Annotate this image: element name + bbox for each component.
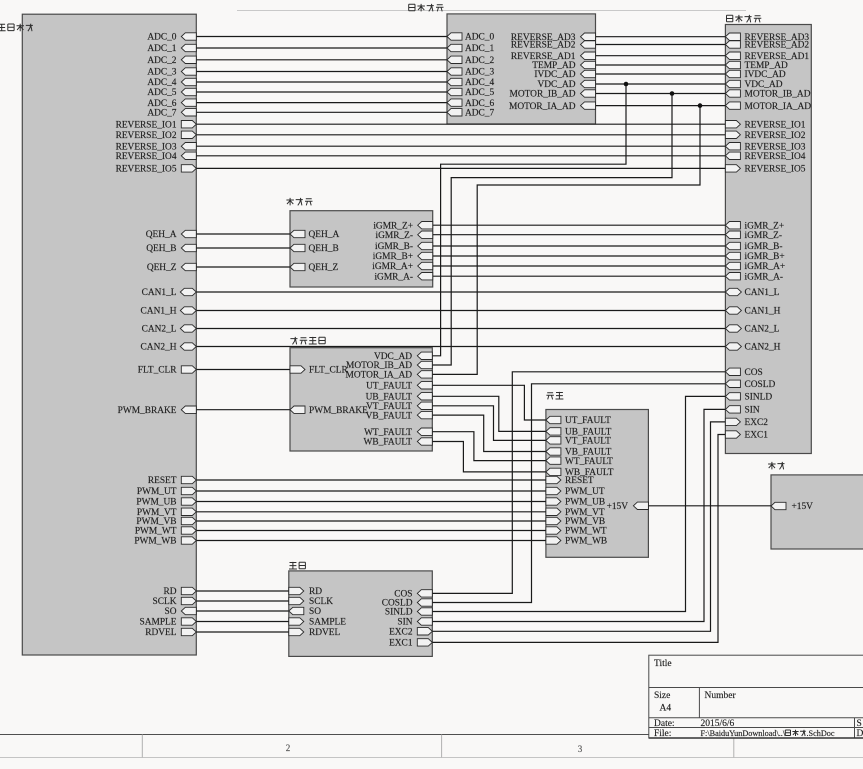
svg-text:QEH_Z: QEH_Z	[309, 263, 339, 273]
svg-text:REVERSE_IO5: REVERSE_IO5	[745, 165, 806, 175]
svg-text:PWM_UB: PWM_UB	[136, 498, 176, 508]
svg-text:REVERSE_IO4: REVERSE_IO4	[116, 152, 177, 162]
svg-text:ADC_7: ADC_7	[147, 109, 176, 119]
svg-text:QEH_Z: QEH_Z	[147, 263, 177, 273]
svg-text:File:: File:	[654, 729, 671, 739]
svg-text:REVERSE_IO2: REVERSE_IO2	[745, 131, 806, 141]
svg-text:ADC_0: ADC_0	[465, 33, 494, 43]
svg-text:MOTOR_IA_AD: MOTOR_IA_AD	[745, 102, 812, 112]
svg-text:CAN1_L: CAN1_L	[745, 288, 780, 298]
svg-text:QEH_A: QEH_A	[309, 230, 340, 240]
svg-text:iGMR_A+: iGMR_A+	[372, 262, 413, 272]
svg-text:WT_FAULT: WT_FAULT	[364, 428, 412, 438]
svg-text:PWM_WT: PWM_WT	[135, 527, 177, 537]
svg-text:EXC2: EXC2	[389, 628, 413, 638]
svg-text:WT_FAULT: WT_FAULT	[565, 457, 613, 467]
svg-text:SIN: SIN	[745, 406, 760, 416]
svg-text:VDC_AD: VDC_AD	[537, 80, 575, 90]
svg-text:REVERSE_IO5: REVERSE_IO5	[116, 165, 177, 175]
svg-text:+15V: +15V	[792, 502, 814, 512]
svg-text:SCLK: SCLK	[309, 597, 333, 607]
svg-text:CAN1_H: CAN1_H	[745, 307, 781, 317]
svg-text:PWM_UT: PWM_UT	[137, 487, 177, 497]
svg-text:REVERSE_IO2: REVERSE_IO2	[116, 131, 177, 141]
svg-text:REVERSE_IO4: REVERSE_IO4	[745, 152, 806, 162]
svg-text:SCLK: SCLK	[153, 597, 177, 607]
svg-text:REVERSE_IO3: REVERSE_IO3	[745, 142, 806, 152]
svg-text:RD: RD	[309, 587, 322, 597]
svg-text:Size: Size	[654, 691, 670, 701]
svg-text:MOTOR_IB_AD: MOTOR_IB_AD	[510, 90, 576, 100]
svg-text:S: S	[857, 719, 862, 729]
svg-text:PWM_UT: PWM_UT	[565, 487, 605, 497]
svg-text:EXC2: EXC2	[745, 418, 769, 428]
svg-text:PWM_VB: PWM_VB	[136, 517, 176, 527]
svg-text:PWM_WB: PWM_WB	[565, 537, 607, 547]
svg-text:ADC_2: ADC_2	[465, 56, 494, 66]
svg-text:ADC_1: ADC_1	[465, 44, 494, 54]
svg-text:QEH_A: QEH_A	[146, 230, 177, 240]
svg-text:RESET: RESET	[148, 476, 177, 486]
svg-text:UB_FAULT: UB_FAULT	[366, 393, 413, 403]
svg-text:MOTOR_IB_AD: MOTOR_IB_AD	[745, 90, 811, 100]
svg-text:Title: Title	[654, 659, 672, 669]
svg-text:QEH_B: QEH_B	[309, 244, 339, 254]
svg-text:SO: SO	[165, 607, 177, 617]
svg-text:VDC_AD: VDC_AD	[745, 80, 783, 90]
svg-text:ADC_5: ADC_5	[465, 88, 494, 98]
svg-text:SINLD: SINLD	[385, 608, 413, 618]
svg-text:PWM_UB: PWM_UB	[565, 498, 605, 508]
svg-text:F:\BaiduYunDownload\..\: F:\BaiduYunDownload\..\	[701, 729, 786, 738]
svg-text:PWM_WB: PWM_WB	[134, 537, 176, 547]
svg-text:D: D	[857, 729, 863, 739]
svg-text:ADC_6: ADC_6	[465, 99, 494, 109]
svg-text:PWM_VB: PWM_VB	[565, 517, 605, 527]
svg-text:RESET: RESET	[565, 476, 594, 486]
svg-text:IVDC_AD: IVDC_AD	[534, 70, 575, 80]
svg-text:UT_FAULT: UT_FAULT	[366, 382, 412, 392]
svg-text:REVERSE_IO1: REVERSE_IO1	[116, 120, 177, 130]
svg-text:UT_FAULT: UT_FAULT	[565, 416, 611, 426]
svg-text:.SchDoc: .SchDoc	[807, 729, 835, 738]
svg-text:ADC_3: ADC_3	[147, 68, 176, 78]
svg-text:PWM_BRAKE: PWM_BRAKE	[118, 406, 177, 416]
svg-text:iGMR_Z+: iGMR_Z+	[373, 221, 413, 231]
svg-text:3: 3	[578, 744, 583, 754]
svg-text:EXC1: EXC1	[389, 639, 413, 649]
svg-text:SAMPLE: SAMPLE	[309, 618, 346, 628]
svg-text:SAMPLE: SAMPLE	[140, 618, 177, 628]
svg-text:REVERSE_AD2: REVERSE_AD2	[511, 41, 576, 51]
svg-text:iGMR_B-: iGMR_B-	[745, 242, 783, 252]
svg-text:CAN1_H: CAN1_H	[141, 307, 177, 317]
svg-text:ADC_2: ADC_2	[147, 56, 176, 66]
svg-text:ADC_3: ADC_3	[465, 68, 494, 78]
svg-text:iGMR_B-: iGMR_B-	[375, 242, 413, 252]
svg-text:iGMR_B+: iGMR_B+	[373, 252, 413, 262]
svg-text:ADC_1: ADC_1	[147, 44, 176, 54]
svg-text:iGMR_Z-: iGMR_Z-	[745, 231, 783, 241]
svg-text:EXC1: EXC1	[745, 431, 769, 441]
svg-text:COS: COS	[745, 368, 763, 378]
svg-text:REVERSE_IO3: REVERSE_IO3	[116, 142, 177, 152]
svg-text:RD: RD	[163, 587, 176, 597]
svg-text:CAN2_L: CAN2_L	[745, 325, 780, 335]
svg-text:MOTOR_IA_AD: MOTOR_IA_AD	[509, 102, 576, 112]
svg-text:VB_FAULT: VB_FAULT	[366, 411, 413, 421]
svg-text:iGMR_Z-: iGMR_Z-	[376, 231, 414, 241]
svg-text:FLT_CLR: FLT_CLR	[138, 366, 177, 376]
svg-text:ADC_4: ADC_4	[147, 78, 176, 88]
svg-text:COSLD: COSLD	[745, 380, 776, 390]
svg-text:iGMR_A-: iGMR_A-	[374, 272, 413, 282]
svg-text:ADC_7: ADC_7	[465, 109, 494, 119]
svg-text:SO: SO	[309, 607, 321, 617]
svg-text:RDVEL: RDVEL	[309, 628, 341, 638]
svg-text:MOTOR_IA_AD: MOTOR_IA_AD	[346, 371, 413, 381]
svg-text:IVDC_AD: IVDC_AD	[745, 70, 786, 80]
svg-text:Date:: Date:	[654, 719, 675, 729]
svg-text:ADC_4: ADC_4	[465, 78, 494, 88]
svg-text:ADC_0: ADC_0	[147, 33, 176, 43]
svg-text:VT_FAULT: VT_FAULT	[565, 437, 611, 447]
svg-text:CAN2_H: CAN2_H	[745, 343, 781, 353]
svg-text:A4: A4	[660, 704, 672, 714]
svg-text:iGMR_A-: iGMR_A-	[745, 272, 784, 282]
svg-text:+15V: +15V	[607, 502, 629, 512]
svg-text:PWM_WT: PWM_WT	[565, 527, 607, 537]
svg-text:CAN2_L: CAN2_L	[142, 325, 177, 335]
svg-text:CAN1_L: CAN1_L	[142, 288, 177, 298]
svg-text:iGMR_Z+: iGMR_Z+	[745, 221, 785, 231]
svg-text:Number: Number	[705, 691, 737, 701]
svg-text:2: 2	[286, 743, 291, 753]
svg-text:FLT_CLR: FLT_CLR	[309, 366, 348, 376]
svg-text:SINLD: SINLD	[745, 393, 773, 403]
svg-text:2015/6/6: 2015/6/6	[701, 719, 735, 729]
svg-text:ADC_6: ADC_6	[147, 99, 176, 109]
svg-text:iGMR_B+: iGMR_B+	[745, 252, 785, 262]
svg-text:SIN: SIN	[397, 618, 412, 628]
svg-text:WB_FAULT: WB_FAULT	[364, 438, 413, 448]
svg-text:CAN2_H: CAN2_H	[141, 343, 177, 353]
svg-text:QEH_B: QEH_B	[146, 244, 176, 254]
svg-text:PWM_BRAKE: PWM_BRAKE	[309, 406, 368, 416]
svg-text:ADC_5: ADC_5	[147, 88, 176, 98]
svg-text:iGMR_A+: iGMR_A+	[745, 262, 786, 272]
svg-text:REVERSE_IO1: REVERSE_IO1	[745, 120, 806, 130]
svg-text:REVERSE_AD2: REVERSE_AD2	[745, 41, 810, 51]
svg-text:RDVEL: RDVEL	[145, 628, 177, 638]
